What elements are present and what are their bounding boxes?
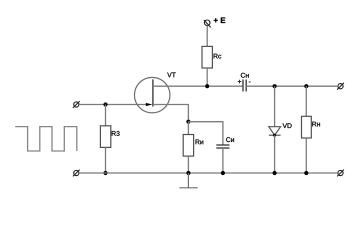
node source/Ri/Ci junction [186,120,190,124]
label VD [283,123,292,128]
wire: top rail right part [246,85,338,87]
node Rn/rail junction [304,171,308,175]
wire: R3 bottom lead [105,147,107,173]
input terminal bottom-left [73,170,80,177]
label +E [214,17,226,23]
output terminal top-right [337,83,344,90]
resistor Rc [202,46,212,68]
wire: Ci branch (horizontal + down to plate) [188,122,223,145]
label Rc [214,54,222,59]
node Rn/top rail junction [304,84,308,88]
node R3/bottom rail junction [103,171,107,175]
square wave input signal symbol [15,127,77,151]
label Cи [226,137,234,142]
output terminal bottom-right [337,170,344,177]
label R3 [112,131,120,136]
input terminal top-left [73,101,80,108]
wire: VD top lead [274,86,276,127]
resistor Rn [302,116,312,138]
wire: R3 top lead [105,105,107,127]
label Rн [312,122,320,127]
capacitor Cn (coupling) [243,80,246,92]
wire: Rc bottom lead [206,68,208,86]
node Rc/top rail junction [205,84,209,88]
wire: bottom rail [79,172,338,174]
wire: drain to top rail (left part) [153,85,243,87]
node Ci/rail junction [221,171,225,175]
node Ri/ground/rail junction [186,171,190,175]
label - (Cn polarity) [249,81,251,84]
wire: Ci bottom lead [222,148,224,173]
label VT [167,73,176,78]
wire: +E to Rc [206,26,208,47]
label + (Cn polarity) [238,80,241,83]
transistor VT gate arrow [146,103,153,106]
wire: Rn bottom lead [305,138,307,173]
node gate/R3 junction [103,102,107,106]
transistor VT (circle) [134,77,170,113]
resistor Ri [183,135,193,157]
wire: source line [153,105,189,122]
power terminal +E [204,20,211,27]
resistor R3 [100,126,110,148]
wire: VD bottom lead [274,135,276,173]
wire: Ri top lead [187,122,189,135]
capacitor Ci [216,145,229,148]
node diode apex dot [273,134,276,137]
wire: Ri bottom lead [187,156,189,173]
label Rи [196,140,204,145]
node VD/top rail junction [273,84,277,88]
label Cн [241,73,249,78]
diode VD [269,127,281,136]
wire: gate line from input terminal to transistor [79,104,147,106]
transistor VT channel bar [152,79,154,106]
node VD/rail junction [273,171,277,175]
wire: Rn top lead [305,86,307,116]
ground [179,173,197,188]
